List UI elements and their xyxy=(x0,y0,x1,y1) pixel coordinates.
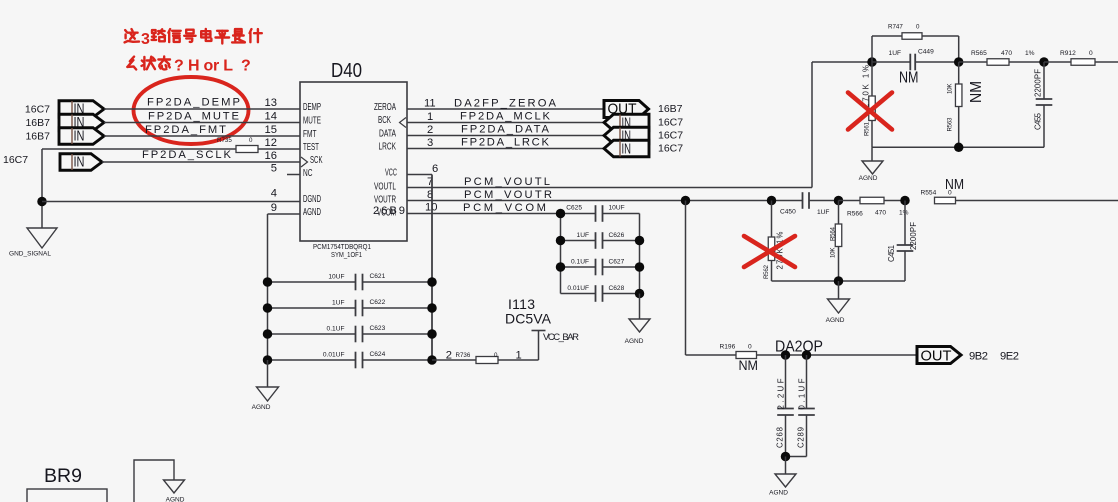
svg-text:MUTE: MUTE xyxy=(303,116,321,127)
svg-text:0: 0 xyxy=(249,137,253,144)
port IN (FP2DA_FMT) xyxy=(59,127,104,144)
junction xyxy=(263,277,273,287)
annotation ellipse around DEMP/MUTE/FMT xyxy=(134,77,249,144)
svg-text:AGND: AGND xyxy=(859,175,878,182)
junction xyxy=(427,277,437,287)
svg-text:C450: C450 xyxy=(780,209,796,216)
svg-text:1UF: 1UF xyxy=(332,300,344,307)
svg-text:C268: C268 xyxy=(776,427,785,448)
svg-text:SCK: SCK xyxy=(310,155,323,166)
svg-text:C628: C628 xyxy=(609,285,625,292)
svg-text:VOUTL: VOUTL xyxy=(374,182,396,193)
svg-text:OUT: OUT xyxy=(921,348,952,365)
svg-text:16: 16 xyxy=(265,150,277,162)
svg-text:R565: R565 xyxy=(971,50,987,57)
wire R735 to TEST pin xyxy=(258,148,300,150)
svg-text:R736: R736 xyxy=(456,352,471,359)
svg-text:1%: 1% xyxy=(1025,50,1035,57)
wire DGND net xyxy=(42,201,300,203)
svg-text:TEST: TEST xyxy=(303,142,319,153)
svg-text:10UF: 10UF xyxy=(328,274,344,281)
wire FP2DA_SCLK xyxy=(102,149,300,162)
wire filter bottom rail xyxy=(872,146,1044,148)
svg-text:0: 0 xyxy=(748,344,752,351)
svg-text:PCM_VOUTL: PCM_VOUTL xyxy=(464,176,550,188)
capacitor C621 10UF xyxy=(268,273,433,290)
svg-text:C627: C627 xyxy=(609,259,625,266)
svg-text:GND_SIGNAL: GND_SIGNAL xyxy=(9,251,51,258)
junction xyxy=(556,262,566,272)
svg-text:C451: C451 xyxy=(887,245,896,262)
svg-text:0.1UF: 0.1UF xyxy=(571,259,589,266)
svg-text:AGND: AGND xyxy=(166,497,185,502)
svg-text:2: 2 xyxy=(427,124,433,136)
svg-text:DEMP: DEMP xyxy=(303,102,321,113)
decoupling bank C621-C624 rails xyxy=(268,175,433,361)
resistor R562 270K 1% (crossed out) xyxy=(763,201,785,282)
decoupling bank C625-C628 rails xyxy=(561,214,640,294)
junction xyxy=(263,355,273,365)
power VCC_BAR xyxy=(532,331,580,361)
svg-text:NM: NM xyxy=(968,81,985,103)
resistor R736 0 xyxy=(432,350,539,364)
port IN (FP2DA_DATA) xyxy=(604,127,649,144)
wire DA2OP net xyxy=(757,339,918,356)
svg-text:C455: C455 xyxy=(1034,112,1043,130)
svg-text:C449: C449 xyxy=(918,49,934,56)
svg-text:DGND: DGND xyxy=(303,194,321,205)
svg-text:NM: NM xyxy=(899,70,919,87)
svg-text:2: 2 xyxy=(446,350,452,362)
svg-text:10K: 10K xyxy=(830,247,837,258)
svg-text:AGND: AGND xyxy=(826,317,845,324)
svg-text:VOUTR: VOUTR xyxy=(374,195,396,206)
svg-text:NM: NM xyxy=(739,358,759,373)
svg-text:3: 3 xyxy=(427,137,433,149)
svg-text:C622: C622 xyxy=(370,299,386,306)
net label I113 DC5VA xyxy=(505,296,552,327)
svg-text:IN: IN xyxy=(74,127,85,144)
svg-text:R196: R196 xyxy=(720,344,736,351)
svg-text:11: 11 xyxy=(424,98,436,110)
ground AGND (bottom left) xyxy=(164,480,185,502)
svg-text:AGND: AGND xyxy=(252,404,271,411)
svg-text:4: 4 xyxy=(271,188,277,200)
svg-text:16C7: 16C7 xyxy=(658,117,683,129)
port OUT (DA2OP) xyxy=(917,347,961,365)
svg-text:IN: IN xyxy=(622,140,632,157)
svg-text:DA2FP_ZEROA: DA2FP_ZEROA xyxy=(454,98,557,110)
junction xyxy=(635,236,645,246)
svg-text:NM: NM xyxy=(945,176,964,193)
junction xyxy=(802,350,812,360)
svg-text:DC5VA: DC5VA xyxy=(505,311,552,327)
svg-text:?: ? xyxy=(174,58,184,75)
wire VOUTR junction down to DA2OP xyxy=(685,201,687,356)
svg-text:13: 13 xyxy=(265,97,277,109)
svg-text:C621: C621 xyxy=(370,273,386,280)
wire PCM_VOUTL xyxy=(407,62,812,188)
wire FP2DA_MUTE xyxy=(104,111,300,123)
junction xyxy=(556,209,566,219)
svg-text:270K 1%: 270K 1% xyxy=(862,65,871,108)
junction xyxy=(427,303,437,313)
ground AGND (lower filter) xyxy=(826,281,850,324)
wire VCC pin to rail xyxy=(407,175,432,361)
capacitor C628 0.01UF xyxy=(561,285,640,302)
svg-text:AGND: AGND xyxy=(303,207,321,218)
junction xyxy=(1039,57,1049,67)
svg-text:R561: R561 xyxy=(864,121,871,136)
junction xyxy=(263,329,273,339)
svg-text:2200PF: 2200PF xyxy=(1034,69,1043,97)
svg-text:PCM1754TDBQRQ1: PCM1754TDBQRQ1 xyxy=(313,244,371,251)
svg-text:DATA: DATA xyxy=(379,129,396,140)
resistor R735 xyxy=(217,137,258,153)
svg-text:16C7: 16C7 xyxy=(658,143,683,155)
ground AGND (top filter) xyxy=(859,147,883,182)
junction xyxy=(781,452,791,462)
svg-text:6: 6 xyxy=(432,163,438,175)
wire FP2DA_DATA xyxy=(407,124,605,136)
capacitor C268 2.2UF xyxy=(776,355,794,457)
svg-text:1UF: 1UF xyxy=(577,232,589,239)
svg-text:1: 1 xyxy=(516,350,522,362)
svg-text:0: 0 xyxy=(1089,50,1093,57)
wire VOUTL to filter node xyxy=(812,61,872,63)
svg-text:NC: NC xyxy=(303,168,313,179)
capacitor C623 0.1UF xyxy=(268,325,433,342)
port OUT (DA2FP_ZEROA) xyxy=(604,101,649,118)
svg-text:16B7: 16B7 xyxy=(25,130,50,142)
wire PCM_VCOM xyxy=(407,202,561,214)
junction xyxy=(954,143,964,153)
pin name VCOM and sheet ref 26B9 xyxy=(373,205,405,219)
svg-text:26B9: 26B9 xyxy=(373,205,405,217)
svg-text:16B7: 16B7 xyxy=(25,117,50,129)
svg-text:2200PF: 2200PF xyxy=(909,222,918,250)
svg-text:9B2: 9B2 xyxy=(969,351,988,363)
capacitor C451 2200PF xyxy=(887,201,918,282)
svg-text:BCK: BCK xyxy=(378,115,391,126)
junction xyxy=(427,355,437,365)
svg-text:AGND: AGND xyxy=(769,490,788,497)
resistor R563 10K NM xyxy=(947,62,986,147)
svg-text:1UF: 1UF xyxy=(889,50,901,57)
junction xyxy=(900,196,910,206)
svg-text:9: 9 xyxy=(271,202,277,214)
svg-text:C624: C624 xyxy=(370,351,386,358)
svg-text:C625: C625 xyxy=(566,205,582,212)
svg-text:BR9: BR9 xyxy=(44,466,82,487)
capacitor C624 0.01UF xyxy=(268,351,433,368)
svg-text:VCC: VCC xyxy=(385,168,397,179)
junction xyxy=(556,236,566,246)
junction xyxy=(781,350,791,360)
pin name SCK with clock arrow xyxy=(301,155,323,167)
junction xyxy=(263,303,273,313)
svg-text:12: 12 xyxy=(265,137,277,149)
svg-text:PCM_VOUTR: PCM_VOUTR xyxy=(464,189,552,201)
junction xyxy=(954,57,964,67)
svg-text:16C7: 16C7 xyxy=(658,130,683,142)
svg-text:PCM_VCOM: PCM_VCOM xyxy=(463,202,546,214)
port IN (FP2DA_DEMP) xyxy=(59,100,104,117)
chip part number xyxy=(313,244,371,259)
svg-text:0.01UF: 0.01UF xyxy=(567,285,589,292)
svg-text:C623: C623 xyxy=(370,325,386,332)
annotation text line1: 这3路信号电平是什 xyxy=(125,29,262,48)
junction xyxy=(427,329,437,339)
svg-text:1UF: 1UF xyxy=(817,209,829,216)
svg-text:FP2DA_MCLK: FP2DA_MCLK xyxy=(460,111,551,123)
junction xyxy=(635,289,645,299)
ground AGND (bank C621) xyxy=(252,360,279,411)
node A junction xyxy=(867,57,877,67)
junction xyxy=(37,197,47,207)
resistor R565 470 1% xyxy=(959,50,1044,65)
wire DA2FP_ZEROA xyxy=(407,98,604,110)
svg-text:R912: R912 xyxy=(1060,50,1076,57)
svg-text:FP2DA_DEMP: FP2DA_DEMP xyxy=(147,97,240,109)
svg-text:14: 14 xyxy=(265,111,277,123)
wire TEST net xyxy=(42,148,236,150)
svg-text:SYM_1OF1: SYM_1OF1 xyxy=(331,252,362,259)
ground AGND (bank C625) xyxy=(625,294,650,346)
pin name BCK with clock arrow xyxy=(378,115,406,128)
svg-text:R566: R566 xyxy=(847,211,863,218)
svg-text:470: 470 xyxy=(1001,50,1012,57)
component BR9 box xyxy=(27,466,107,502)
capacitor C450 1UF xyxy=(780,192,839,216)
ground GND_SIGNAL xyxy=(9,228,57,258)
port IN (FP2DA_MUTE) xyxy=(59,114,104,131)
svg-text:10UF: 10UF xyxy=(609,205,625,212)
svg-text:0: 0 xyxy=(494,352,498,359)
wire FP2DA_LRCK xyxy=(407,137,605,149)
svg-text:R562: R562 xyxy=(763,264,770,279)
resistor R196 0 NM xyxy=(686,344,759,374)
svg-text:D40: D40 xyxy=(331,60,362,82)
svg-text:16C7: 16C7 xyxy=(3,154,28,166)
port IN (FP2DA_LRCK) xyxy=(604,140,649,157)
capacitor C625 10UF xyxy=(561,205,640,222)
ground AGND (DA2OP) xyxy=(769,457,796,497)
svg-text:0.01UF: 0.01UF xyxy=(323,352,345,359)
svg-text:3: 3 xyxy=(141,31,150,48)
resistor R561 270K 1% (crossed out) xyxy=(862,62,876,147)
wire FP2DA_DEMP xyxy=(104,97,300,110)
svg-text:15: 15 xyxy=(265,124,277,136)
svg-text:R564: R564 xyxy=(830,226,837,241)
svg-text:C289: C289 xyxy=(797,427,806,448)
resistor R554 0 NM xyxy=(921,176,1118,204)
svg-text:AGND: AGND xyxy=(625,338,644,345)
wire PCM_VOUTR xyxy=(407,189,803,201)
svg-text:R735: R735 xyxy=(217,137,232,144)
port IN (FP2DA_MCLK) xyxy=(604,114,649,131)
junction xyxy=(834,276,844,286)
svg-text:16B7: 16B7 xyxy=(658,103,683,115)
junction xyxy=(767,196,777,206)
red X over R561 xyxy=(848,93,892,130)
wire lower filter bottom rail xyxy=(772,280,906,282)
svg-text:270K 1%: 270K 1% xyxy=(776,231,785,269)
resistor R566 470 1% xyxy=(839,197,909,217)
svg-text:C626: C626 xyxy=(609,232,625,239)
capacitor C626 1UF xyxy=(561,232,640,249)
svg-text:5: 5 xyxy=(271,163,277,175)
svg-text:FP2DA_MUTE: FP2DA_MUTE xyxy=(148,111,239,123)
wire AGND pin to rail xyxy=(268,214,301,282)
capacitor C622 1UF xyxy=(268,299,433,316)
capacitor C289 0.1UF xyxy=(786,355,815,457)
svg-text:16C7: 16C7 xyxy=(25,103,50,115)
junction DA2OP branch xyxy=(681,196,691,206)
svg-text:FP2DA_FMT: FP2DA_FMT xyxy=(145,124,226,136)
svg-text:VCC_BAR: VCC_BAR xyxy=(543,332,579,343)
resistor R564 10K xyxy=(830,201,842,282)
resistor R912 0 xyxy=(1044,50,1118,65)
pin number 5 xyxy=(271,163,300,175)
resistor R747 bypass loop xyxy=(872,24,959,63)
svg-text:1: 1 xyxy=(427,111,433,123)
svg-text:H or L: H or L xyxy=(188,58,233,75)
svg-text:470: 470 xyxy=(875,210,886,217)
svg-text:R747: R747 xyxy=(888,24,903,31)
svg-text:?: ? xyxy=(241,58,251,75)
capacitor C449 1UF NM xyxy=(872,49,959,87)
wire ground rail left xyxy=(41,149,43,228)
annotation text line2: 么状态？H or L？ xyxy=(127,57,250,75)
svg-text:R554: R554 xyxy=(921,190,937,197)
svg-text:IN: IN xyxy=(74,153,85,170)
svg-text:FP2DA_LRCK: FP2DA_LRCK xyxy=(461,137,550,149)
svg-text:ZEROA: ZEROA xyxy=(374,102,396,113)
svg-text:10: 10 xyxy=(425,202,437,214)
junction xyxy=(635,262,645,272)
junction xyxy=(834,196,844,206)
wire FP2DA_MCLK xyxy=(407,111,605,123)
svg-text:10K: 10K xyxy=(947,83,954,94)
svg-text:0: 0 xyxy=(916,24,920,31)
svg-text:1%: 1% xyxy=(899,210,909,217)
svg-text:0.1UF: 0.1UF xyxy=(327,326,345,333)
svg-text:9E2: 9E2 xyxy=(1000,351,1019,363)
capacitor C455 2200PF xyxy=(1034,62,1053,147)
capacitor C627 0.1UF xyxy=(561,259,640,276)
wire hook to AGND xyxy=(134,460,174,502)
red X over R562 xyxy=(744,236,795,267)
wire FP2DA_FMT xyxy=(104,124,300,136)
port IN (FP2DA_SCLK) xyxy=(60,153,102,170)
svg-text:R563: R563 xyxy=(947,117,954,132)
svg-text:FMT: FMT xyxy=(303,129,317,140)
svg-text:LRCK: LRCK xyxy=(379,142,397,153)
op-amp/DAC U-D40 PCM1754 body xyxy=(300,60,407,241)
